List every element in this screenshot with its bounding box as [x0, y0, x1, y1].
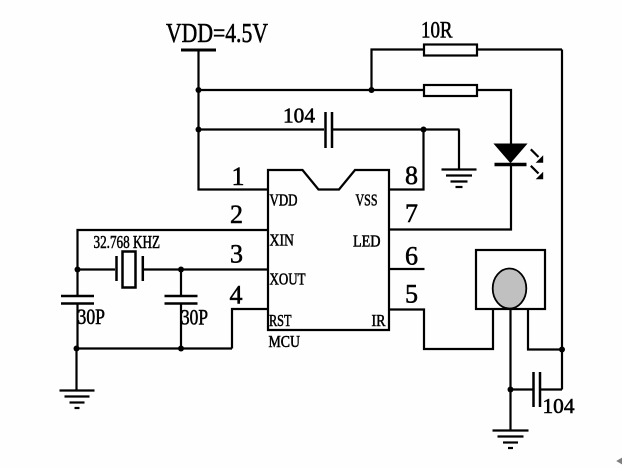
IR receiver U2 box [476, 250, 545, 309]
svg-text:MCU: MCU [269, 332, 301, 351]
svg-text:IR: IR [372, 311, 387, 330]
LED arrow 2 [531, 166, 543, 179]
wire crystal left to cap [78, 268, 116, 270]
junction right rail bottom [559, 347, 565, 353]
wire IR middle leg to ground [509, 309, 511, 430]
wire cap C2 right [541, 388, 562, 390]
crystal Y1 right plate [142, 256, 145, 281]
wire IR right leg [528, 309, 562, 350]
wire VDD branch y129 to cap [199, 128, 325, 130]
svg-text:XOUT: XOUT [270, 270, 306, 289]
wire pin 4 to bottom rail [232, 309, 268, 349]
capacitor C2 104 plates [534, 372, 541, 407]
wire VDD branch y90 [199, 89, 425, 91]
svg-text:LED: LED [353, 232, 381, 251]
wire R2 to LED [477, 90, 511, 144]
svg-text:104: 104 [283, 104, 316, 128]
power rail bar [181, 49, 216, 52]
junction resistor tap [369, 87, 375, 93]
wire cap to pin8 node [333, 128, 460, 130]
junction crystal left [75, 267, 81, 273]
wire pin 8 riser [389, 130, 424, 190]
svg-text:1: 1 [232, 162, 245, 191]
junction branch y129 left [196, 127, 202, 133]
wire ground stub [458, 130, 460, 170]
junction cap C2 left [508, 387, 514, 393]
crystal Y1 left plate [115, 256, 118, 281]
wire VDD vertical to pin 1 [199, 50, 269, 190]
svg-text:5: 5 [405, 280, 418, 309]
wire bottom rail [77, 347, 233, 349]
junction bottom rail cap C4 [178, 346, 184, 352]
wire pin 6 stub [389, 268, 425, 270]
resistor R2 [424, 85, 477, 96]
svg-text:30P: 30P [181, 305, 208, 330]
junction bottom rail left [74, 346, 80, 352]
wire cap C4 drop [180, 270, 182, 296]
wire pin 2 to crystal left [78, 230, 269, 270]
wire cap C4 to bottom rail [180, 305, 182, 349]
svg-text:6: 6 [405, 242, 418, 271]
LED D1 triangle [495, 144, 527, 163]
capacitor C1 104 plates [326, 112, 333, 148]
svg-text:2: 2 [230, 200, 243, 229]
wire right vertical rail [561, 50, 563, 390]
wire cap C3 drop [76, 270, 78, 296]
wire R1 to right rail [477, 48, 562, 50]
ground GND1 [442, 170, 477, 188]
wire pin 3 to crystal right [144, 268, 268, 270]
wire resistor R1 feed [372, 50, 425, 91]
svg-text:RST: RST [269, 311, 292, 330]
wire pin 5 to IR receiver [389, 309, 493, 349]
svg-text:30P: 30P [78, 304, 106, 329]
LED arrow 1 [531, 149, 543, 163]
svg-text:4: 4 [230, 281, 243, 310]
svg-text:104: 104 [543, 394, 576, 418]
svg-text:32.768 KHZ: 32.768 KHZ [94, 232, 161, 252]
svg-text:10R: 10R [421, 18, 453, 43]
svg-text:XIN: XIN [270, 231, 295, 250]
MCU U1 body [268, 170, 389, 330]
svg-text:8: 8 [405, 161, 418, 190]
ground GND3 [60, 391, 95, 409]
wire cap C2 left [511, 388, 533, 390]
LED D1 cathode bar [495, 163, 527, 167]
wire ground stem left [75, 349, 77, 391]
svg-text:VDD: VDD [270, 191, 298, 210]
svg-text:VDD=4.5V: VDD=4.5V [166, 18, 268, 48]
svg-text:7: 7 [405, 199, 418, 228]
svg-text:3: 3 [230, 240, 243, 269]
junction crystal right tap [178, 267, 184, 273]
resistor R1 10R [424, 45, 477, 56]
ground GND2 [493, 431, 529, 449]
cursor arrow bottom right [616, 458, 622, 465]
junction VDD branch left [196, 87, 202, 93]
capacitor C3 30P plates [61, 296, 94, 304]
svg-text:VSS: VSS [356, 191, 378, 210]
wire LED to pin 7 [389, 166, 511, 230]
IR receiver lens [493, 269, 527, 309]
junction pin8 node [421, 127, 427, 133]
wire cap C3 to bottom rail [76, 305, 78, 349]
crystal Y1 body [123, 252, 136, 288]
capacitor C4 30P plates [165, 296, 198, 304]
